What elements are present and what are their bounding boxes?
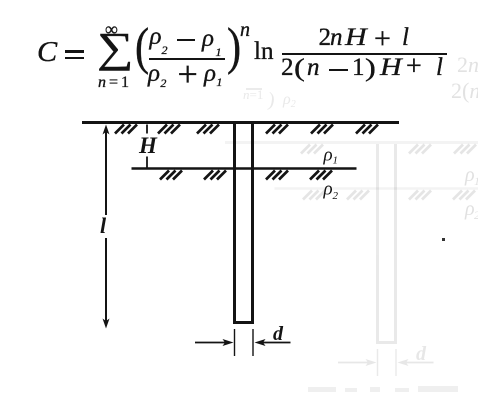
main diagram [82,123,399,357]
ghost formula fragment 2(n- [451,80,478,102]
summation sigma [97,28,133,70]
denominator rho2 [148,61,160,86]
ghost bottom text row [308,386,458,392]
svg-text:l: l [100,213,107,238]
l dimension arrow [105,128,107,325]
ghost rod [376,144,397,376]
lower limit n=1 [98,75,132,91]
ghost ground line [225,141,478,144]
equals sign [65,50,84,53]
exponent n [240,20,250,40]
svg-text:1: 1 [474,174,478,188]
ghost boundary hatches [303,191,475,200]
ghost paren fragment [267,90,276,111]
svg-text:2: 2 [474,208,478,222]
ln operator [254,39,273,64]
ghost rho labels [464,164,478,222]
denominator 2 ( n - 1 ) H + l [281,55,294,80]
ghost rho2 fragment [283,92,296,110]
infinity upper limit [105,20,118,38]
big right parenthesis [227,21,241,73]
symbol C [37,39,57,67]
svg-text:d: d [416,343,427,365]
fraction bar left [149,58,225,60]
H tick [146,125,148,169]
ghost ground hatches [301,145,476,154]
ghost offset copy of diagram (print bleed) [225,143,478,377]
numerator 2 n H + l [319,25,332,50]
plus sign [178,56,198,92]
ghost d dimension [338,343,434,366]
ghost boundary line [275,187,478,190]
numerator rho2 [150,24,162,49]
big left parenthesis [135,21,149,73]
stray ink speck [442,238,445,241]
denominator rho1 [204,61,216,86]
svg-text:H: H [138,133,158,158]
ghost formula fragment 2n [457,54,478,76]
fraction bar right [282,53,447,55]
numerator rho1 [202,26,214,51]
minus sign [177,39,195,42]
ghost formula fragment n=1 [243,88,263,101]
